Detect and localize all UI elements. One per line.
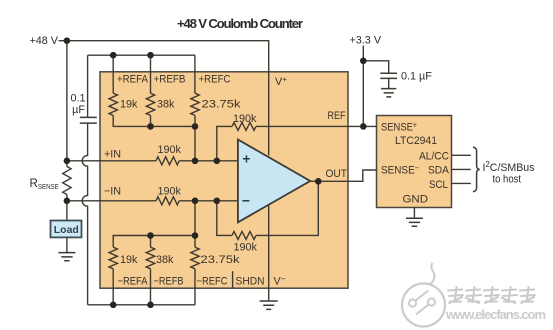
wire -REFB bottom stub (150, 269, 152, 305)
watermark chinese text (vector strokes) (448, 287, 535, 303)
svg-text:0.1: 0.1 (70, 93, 85, 105)
svg-text:190k: 190k (233, 113, 257, 125)
LTC pin SCL wire (452, 182, 471, 184)
svg-text:190k: 190k (158, 144, 182, 156)
watermark logo circle (402, 263, 445, 327)
svg-text:+3.3 V: +3.3 V (350, 35, 382, 47)
svg-text:−REFA: −REFA (118, 276, 149, 288)
wire feedback: -IN node down to 190k (217, 201, 232, 236)
wire +48V down to Rsense (66, 41, 68, 161)
svg-text:OUT: OUT (326, 168, 348, 180)
svg-text:+IN: +IN (104, 149, 121, 161)
node +3.3V (360, 58, 367, 65)
svg-text:+: + (242, 151, 250, 167)
resistor R_FB 190k bottom (232, 231, 256, 239)
node +IN a (192, 158, 199, 165)
wire +48V rail to V+ (59, 41, 269, 156)
load box (51, 221, 82, 238)
node -REF junction C (192, 232, 199, 239)
svg-text:to host: to host (493, 174, 522, 186)
node -IN a (192, 198, 199, 205)
svg-text:www.elecfans.com: www.elecfans.com (445, 307, 546, 322)
LTC GND pin wire (413, 208, 415, 219)
wire +REFA top stub (112, 55, 114, 93)
ground LTC (406, 218, 423, 226)
wire top REF rail y=55 (88, 54, 195, 56)
wire node down to +IN line (194, 126, 196, 160)
wire -IN node down to junction (194, 201, 196, 247)
ground load (58, 253, 75, 261)
node -REF junction B (147, 232, 154, 239)
svg-text:AL/CC: AL/CC (419, 151, 449, 163)
capacitor C2 0.1uF plates (380, 73, 397, 78)
wire OUT to SENSE- (310, 170, 377, 181)
wire -IN line left segment (67, 200, 156, 202)
svg-text:SENSE+: SENSE+ (381, 121, 417, 134)
wire left cap column lower with hops over +IN and -IN (82, 123, 87, 305)
svg-text:19k: 19k (120, 99, 138, 111)
resistor -REFC 23.75k (191, 247, 199, 269)
node top rail B (147, 52, 154, 59)
svg-text:µF: µF (72, 104, 85, 116)
svg-text:LTC2941: LTC2941 (395, 135, 437, 147)
wire load to ground (66, 237, 68, 252)
svg-text:190k: 190k (234, 242, 258, 254)
resistor R_IN- 190k (156, 197, 179, 205)
wire +IN line right segment to op-amp (179, 160, 238, 162)
wire +REFC top stub (194, 55, 196, 93)
node +REF junction C (192, 123, 199, 130)
svg-text:−REFC: −REFC (197, 276, 228, 288)
op-amp outer block (orange) (100, 72, 348, 288)
wire +REF junction rail y=126.4 (113, 115, 195, 126)
svg-text:GND: GND (403, 194, 429, 206)
ground C2 (381, 89, 396, 97)
wire REF line to LTC (256, 125, 377, 127)
svg-text:REF: REF (328, 110, 346, 122)
wire feedback to OUT (256, 181, 318, 235)
LTC pin SDA wire (452, 168, 471, 170)
wire V- from op-amp to ground (268, 205, 270, 301)
wire 3.3V to cap C2 (363, 61, 388, 73)
wire bottom -REF rail (88, 304, 195, 306)
svg-text:SCL: SCL (429, 179, 448, 191)
wire +IN line left segment (67, 160, 156, 162)
resistor RSENSE (63, 167, 71, 195)
wire +REFB bottom stub (150, 115, 152, 126)
svg-text:Load: Load (54, 224, 79, 236)
resistor -REFB 38k (146, 247, 154, 269)
wire left cap column upper (87, 55, 89, 117)
node top rail A (110, 52, 117, 59)
capacitor C1 0.1uF plates (80, 117, 97, 123)
svg-text:I2C/SMBus: I2C/SMBus (483, 160, 536, 174)
node bottom rail A (110, 302, 117, 309)
node +IN b (214, 158, 221, 165)
svg-text:38k: 38k (156, 254, 174, 266)
resistor R_IN+ 190k (156, 157, 179, 165)
wire +REFC bottom stub to node (194, 115, 196, 126)
svg-text:19k: 19k (120, 254, 138, 266)
wire Rsense top dot to load: vertical (66, 161, 68, 221)
svg-text:190k: 190k (158, 186, 182, 198)
pin tick SHDN (232, 271, 234, 288)
wire cap C2 to ground (388, 79, 390, 89)
svg-text:SDA: SDA (428, 165, 450, 177)
svg-text:−REFB: −REFB (154, 276, 184, 288)
svg-text:23.75k: 23.75k (202, 99, 242, 111)
LTC pin AL/CC wire (452, 154, 471, 156)
svg-text:−: − (242, 193, 250, 209)
svg-text:0.1 µF: 0.1 µF (401, 71, 432, 83)
node bottom rail B (147, 302, 154, 309)
node SENSE+/REF (360, 123, 367, 130)
wire -IN line right segment to op-amp (179, 200, 238, 202)
LTC2941 block (orange) (377, 116, 452, 208)
svg-text:SHDN: SHDN (236, 276, 265, 288)
wire -REF junction rail y=235.5 (113, 236, 195, 248)
svg-text:SENSE−: SENSE− (381, 164, 419, 177)
node -IN b (214, 198, 221, 205)
svg-text:+48 V Coulomb Counter: +48 V Coulomb Counter (177, 16, 303, 31)
wire -REFB top stub (150, 236, 152, 248)
resistor -REFA 19k (109, 247, 117, 269)
wire +3.3V column (362, 46, 364, 127)
resistor +REFC 23.75k (191, 93, 199, 115)
wire -REFC bottom stub (194, 269, 196, 305)
resistor +REFB 38k (146, 93, 154, 115)
node Rsense top (64, 158, 71, 165)
resistor +REFA 19k (109, 93, 117, 115)
svg-text:38k: 38k (157, 99, 175, 111)
resistor R_REF 190k top (232, 122, 256, 130)
svg-text:+REFA: +REFA (117, 74, 149, 86)
svg-text:+48 V: +48 V (29, 35, 58, 47)
svg-text:−IN: −IN (104, 186, 121, 198)
svg-text:+REFC: +REFC (199, 74, 231, 86)
wire -REFA bottom stub (112, 269, 114, 305)
wire +REFB top stub (150, 55, 152, 93)
node Rsense bottom (64, 198, 71, 205)
brace I2C (473, 147, 480, 191)
node +48V (64, 37, 71, 44)
op-amp U1 triangle (238, 140, 310, 223)
node OUT (315, 178, 322, 185)
ground V- (260, 301, 278, 309)
wire +IN node up to REF resistor (217, 126, 232, 160)
node +REF junction B (147, 123, 154, 130)
svg-text:+REFB: +REFB (154, 74, 186, 86)
svg-text:23.75k: 23.75k (201, 254, 241, 266)
